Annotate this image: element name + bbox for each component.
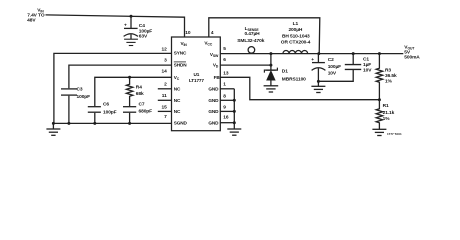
inductor L1 200uH — [283, 50, 308, 53]
wire SHDN pin 3 to C3 — [69, 65, 172, 88]
capacitor C4 100uF 63V — [124, 16, 153, 39]
svg-text:GND: GND — [208, 109, 219, 114]
svg-text:GND: GND — [208, 98, 219, 103]
svg-text:+: + — [311, 58, 314, 63]
svg-text:GND: GND — [208, 86, 219, 91]
svg-text:C7: C7 — [139, 101, 145, 107]
ground below R1 — [372, 129, 386, 135]
node junction C2/C1 return — [317, 80, 320, 83]
capacitor C7 680pF — [123, 101, 152, 123]
node junction C3 on SGND rail — [67, 122, 70, 125]
svg-text:NC: NC — [174, 86, 181, 91]
svg-text:15: 15 — [161, 104, 167, 110]
svg-text:C4: C4 — [139, 23, 145, 29]
svg-text:LSENSE: LSENSE — [245, 26, 260, 32]
ground below C4 — [124, 39, 138, 45]
ground below GND bus — [227, 129, 241, 135]
svg-text:63V: 63V — [139, 34, 148, 40]
svg-text:FB: FB — [214, 75, 221, 80]
svg-text:VC: VC — [174, 75, 180, 81]
svg-text:GND: GND — [208, 120, 219, 125]
svg-text:C2: C2 — [328, 57, 334, 63]
node junction R4/VC — [128, 76, 131, 79]
node junction C7 on SGND rail — [128, 122, 131, 125]
wire VSW output rail — [220, 53, 403, 55]
wire VD pin 6 to diode node — [220, 64, 271, 66]
capacitor C6 100pF — [88, 101, 117, 123]
inductor LSENSE 0.47uH loop — [248, 47, 255, 54]
svg-text:100µF: 100µF — [328, 64, 341, 70]
capacitor C1 1uF 10V — [318, 54, 372, 82]
node junction SYNC/ground on SGND rail — [52, 122, 55, 125]
capacitor C3 100pF — [61, 86, 90, 123]
node junction rail/R3 — [378, 52, 381, 55]
svg-text:10: 10 — [185, 30, 191, 36]
ground below D1 — [264, 86, 279, 92]
svg-text:BH 510-1043: BH 510-1043 — [282, 33, 310, 39]
wire NC pin 15 stub — [158, 110, 172, 112]
svg-text:12: 12 — [161, 46, 167, 52]
wire SYNC pin 12 to ground rail — [54, 53, 172, 123]
diode D1 MBRS1100 schottky — [264, 54, 306, 86]
svg-text:3: 3 — [164, 58, 167, 64]
wire VIN rail to pin 10 — [46, 15, 185, 37]
capacitor C2 100uF 10V — [311, 54, 341, 86]
IC U1 LT1777 body — [172, 37, 221, 131]
svg-text:R1: R1 — [383, 103, 389, 109]
node junction GND bus pin 9 — [233, 110, 236, 113]
svg-text:100pF: 100pF — [103, 109, 117, 115]
svg-text:D1: D1 — [282, 69, 288, 75]
ground at SGND rail left — [46, 123, 60, 135]
svg-text:500mA: 500mA — [404, 54, 420, 60]
wire FB pin 13 to divider — [220, 77, 379, 99]
node VIN input label — [27, 7, 45, 23]
resistor R3 36.5k — [376, 54, 397, 100]
svg-text:100pF: 100pF — [77, 94, 91, 100]
svg-text:1%: 1% — [385, 78, 393, 84]
svg-text:11: 11 — [162, 93, 167, 99]
svg-text:6: 6 — [223, 57, 226, 63]
svg-text:+: + — [124, 23, 127, 28]
pin name labels U1 — [174, 40, 221, 125]
node junction GND bus pin 16 — [233, 121, 236, 124]
svg-text:1%: 1% — [383, 116, 391, 122]
svg-text:VSW: VSW — [210, 52, 219, 58]
node junction VD/D1 — [269, 64, 272, 67]
node junction rail/VCC/C2 — [317, 52, 320, 55]
svg-text:100µF: 100µF — [139, 28, 152, 34]
wire GND pin 1 stub — [220, 88, 234, 90]
svg-text:SML32-470k: SML32-470k — [237, 38, 264, 44]
svg-text:200µH: 200µH — [288, 27, 302, 33]
wire GND pin 16 stub — [220, 122, 234, 124]
wire SGND rail — [53, 122, 172, 124]
svg-text:LT1777: LT1777 — [189, 78, 204, 83]
svg-text:5: 5 — [223, 46, 226, 52]
wire GND pin 8 stub — [220, 99, 234, 101]
svg-text:0.47µH: 0.47µH — [244, 31, 260, 37]
svg-text:VIN: VIN — [181, 41, 188, 47]
svg-text:48V: 48V — [27, 18, 36, 24]
svg-text:L1: L1 — [293, 21, 299, 27]
node junction C6 on SGND rail — [93, 122, 96, 125]
overline of SHDN — [174, 61, 186, 63]
svg-text:VD: VD — [213, 63, 219, 69]
wire VC pin 14 to C6 — [95, 77, 172, 106]
svg-text:2: 2 — [164, 82, 167, 88]
svg-text:14: 14 — [161, 69, 167, 75]
node junction C4/VIN — [130, 15, 133, 18]
svg-text:R3: R3 — [385, 68, 391, 74]
svg-text:10V: 10V — [363, 67, 372, 73]
svg-text:SGND: SGND — [174, 120, 188, 125]
svg-text:NC: NC — [174, 98, 181, 103]
svg-text:7: 7 — [164, 114, 167, 120]
svg-text:U1: U1 — [194, 72, 200, 77]
svg-text:13: 13 — [223, 71, 229, 77]
wire VCC bootstrap from pin 4 to output rail — [209, 18, 320, 54]
svg-text:21.1k: 21.1k — [383, 110, 395, 116]
svg-text:OR CTX200-4: OR CTX200-4 — [281, 39, 311, 45]
value label LSENSE 0.47uH SML32-470k — [237, 26, 264, 44]
svg-text:10V: 10V — [328, 71, 337, 77]
svg-text:SYNC: SYNC — [174, 50, 187, 55]
svg-text:C3: C3 — [77, 86, 83, 92]
svg-text:VCC: VCC — [204, 40, 212, 46]
svg-text:7.4V TO: 7.4V TO — [27, 12, 45, 18]
svg-text:8: 8 — [223, 93, 226, 99]
node junction FB/R3/R1 — [378, 98, 381, 101]
ground below C2 — [311, 86, 325, 92]
value label L1 200uH BH 510-1043 OR CTX200-4 — [281, 21, 311, 45]
node VOUT output label — [404, 44, 420, 60]
svg-text:C1: C1 — [363, 57, 369, 63]
svg-text:MBRS1100: MBRS1100 — [282, 76, 306, 82]
wire GND bus — [233, 89, 235, 129]
svg-text:9: 9 — [223, 105, 226, 111]
node junction rail/D1 — [269, 52, 272, 55]
node junction rail/C1 — [352, 52, 355, 55]
svg-text:C6: C6 — [103, 101, 109, 107]
svg-text:1777 TA01: 1777 TA01 — [387, 132, 402, 136]
resistor R1 21.1k — [376, 100, 394, 129]
svg-text:4: 4 — [211, 30, 214, 36]
svg-text:1µF: 1µF — [363, 62, 371, 68]
wire NC pin 2 stub — [158, 88, 172, 90]
resistor R4 68k — [126, 77, 144, 106]
wire GND pin 9 stub — [220, 110, 234, 112]
pin numbers U1 — [161, 30, 228, 120]
svg-text:SHDN: SHDN — [174, 63, 187, 68]
svg-text:68k: 68k — [136, 91, 144, 97]
wire NC pin 11 stub — [158, 99, 172, 101]
node junction GND bus pin 8 — [233, 99, 236, 102]
svg-text:36.5k: 36.5k — [385, 73, 397, 79]
svg-text:R4: R4 — [136, 85, 142, 91]
svg-text:16: 16 — [223, 114, 229, 120]
svg-text:NC: NC — [174, 109, 181, 114]
svg-text:1: 1 — [223, 82, 226, 88]
svg-text:680pF: 680pF — [139, 108, 153, 114]
